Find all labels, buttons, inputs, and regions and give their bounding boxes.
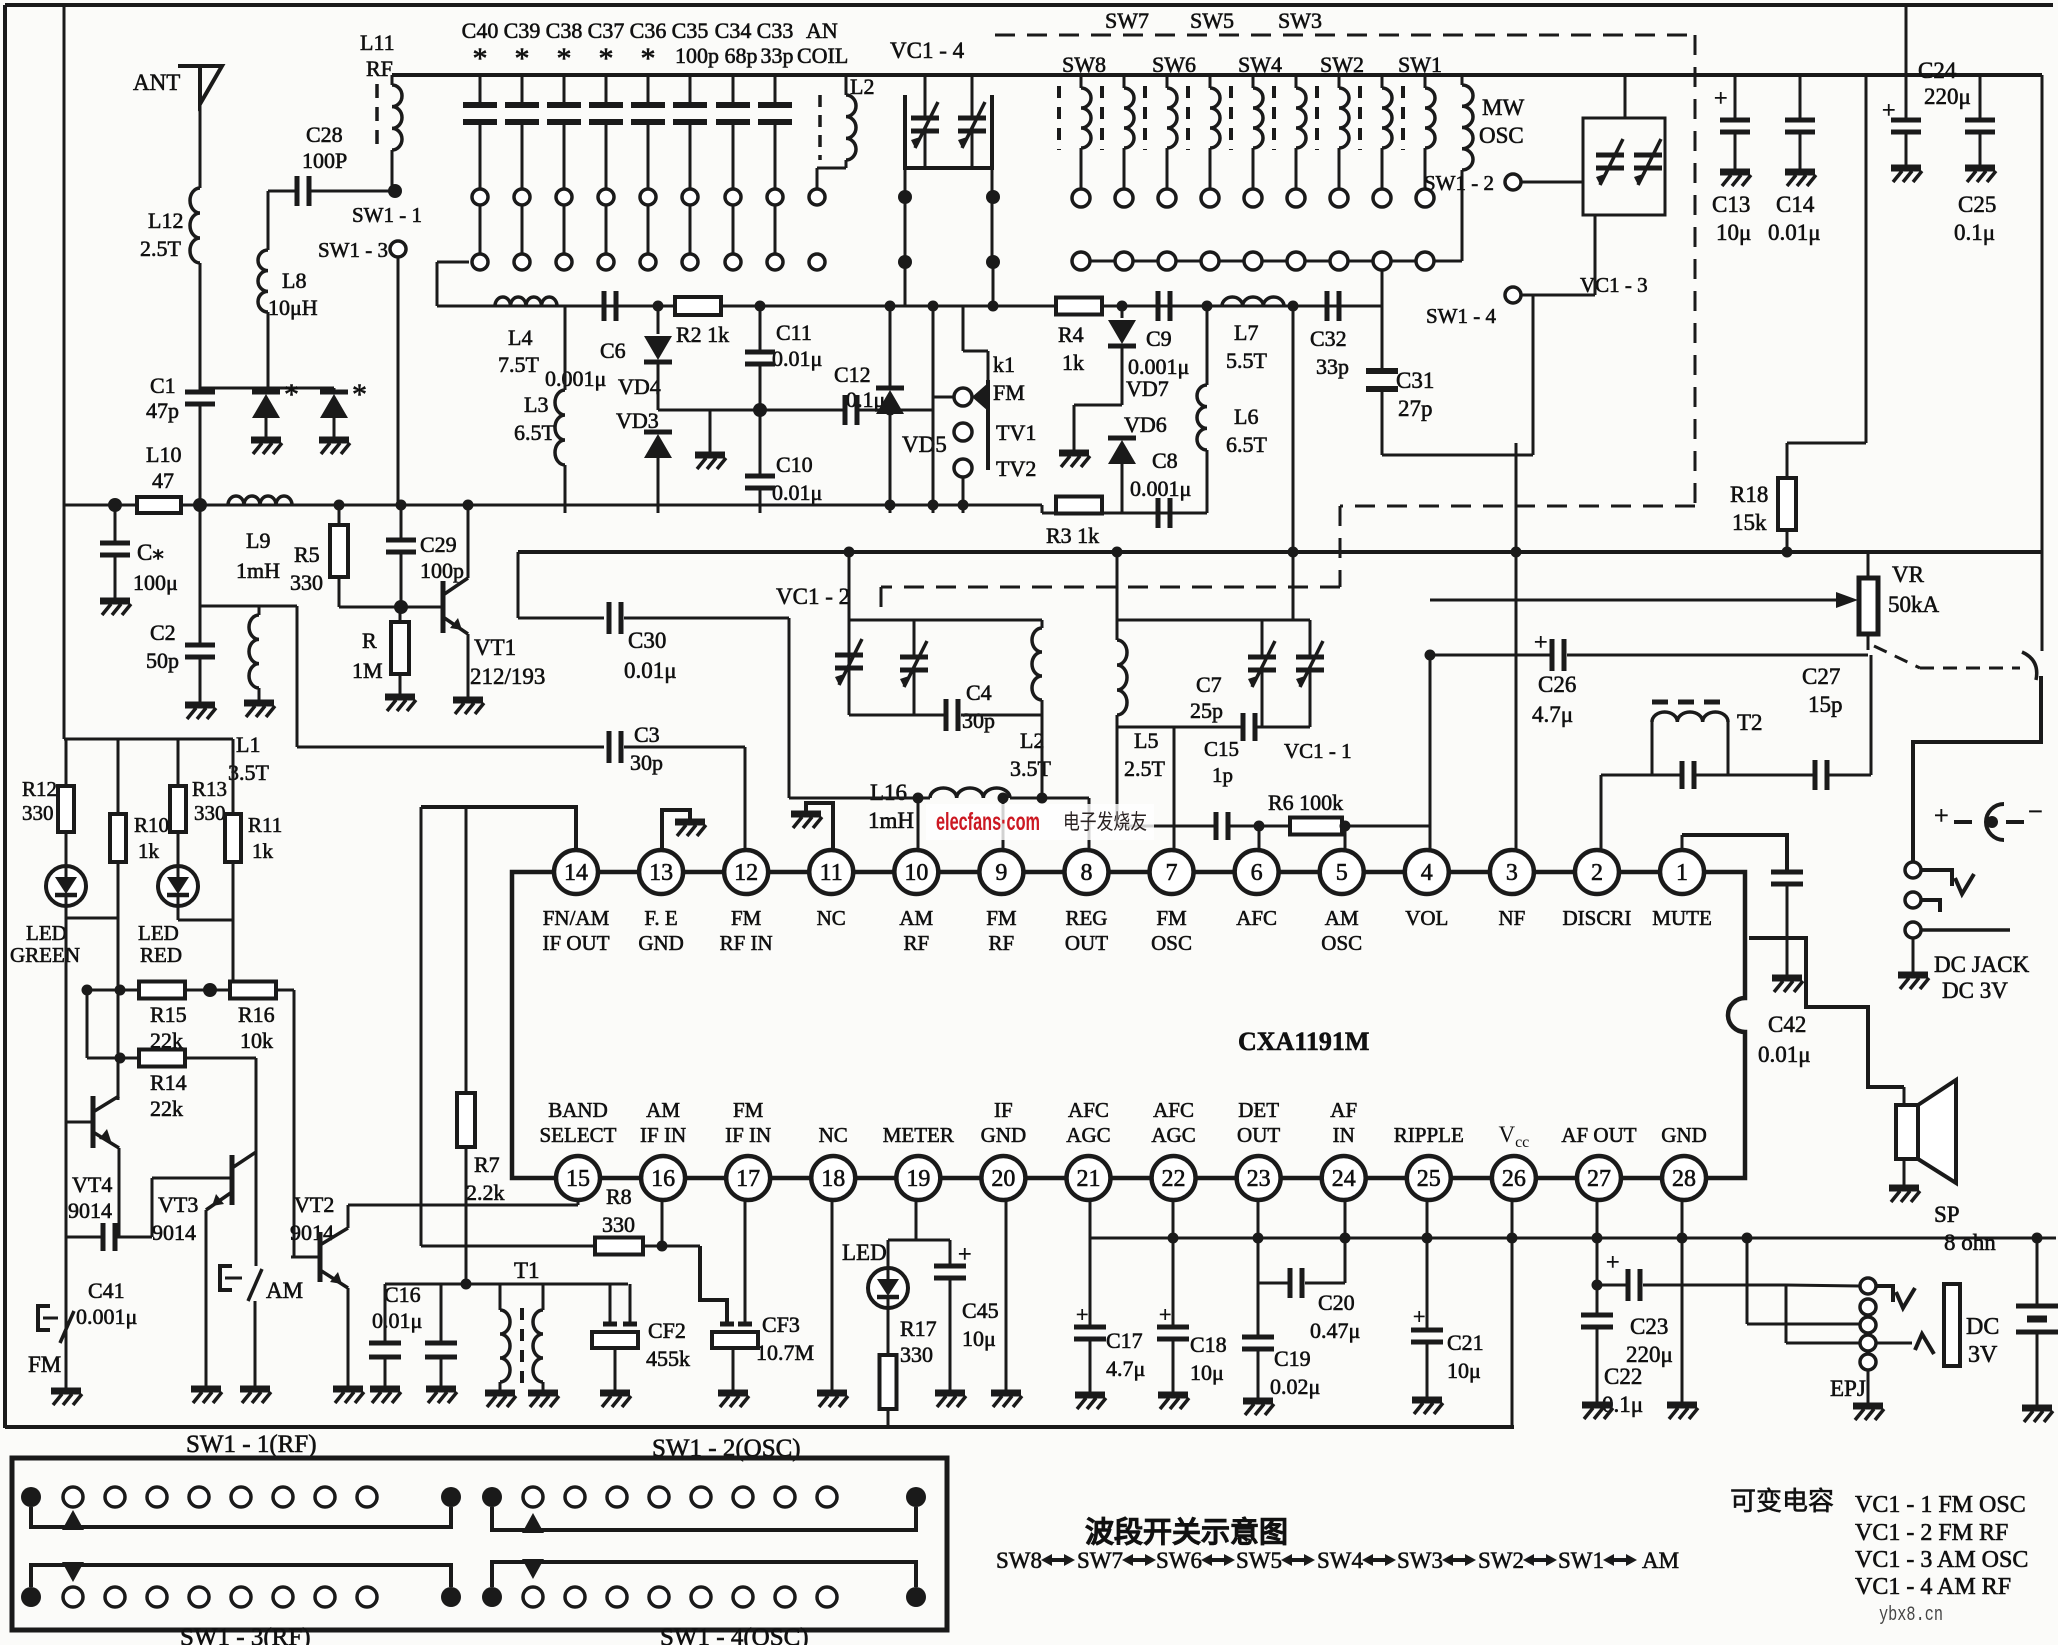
wire x466 down to R7 bbox=[465, 807, 468, 1093]
svg-text:15: 15 bbox=[566, 1166, 590, 1192]
wire chain to MW coil bbox=[1434, 260, 1462, 263]
pin 22 bbox=[1152, 1156, 1196, 1200]
svg-text:R11: R11 bbox=[248, 813, 282, 837]
svg-text:AM: AM bbox=[646, 1098, 680, 1122]
svg-text:SW3: SW3 bbox=[1278, 8, 1322, 33]
capacitor C* 100u bbox=[108, 498, 122, 512]
ground mid bbox=[709, 410, 712, 452]
pin 17 bbox=[726, 1156, 770, 1200]
svg-text:*: * bbox=[473, 42, 488, 75]
svg-text:SW1 - 4: SW1 - 4 bbox=[1426, 304, 1496, 328]
wire pin16 down bbox=[661, 1201, 664, 1246]
svg-text:16: 16 bbox=[651, 1166, 675, 1192]
svg-text:100p: 100p bbox=[675, 43, 719, 68]
svg-text:R13: R13 bbox=[192, 777, 227, 801]
svg-text:AM: AM bbox=[899, 906, 933, 930]
pin 23 bbox=[1237, 1156, 1281, 1200]
svg-text:2.5T: 2.5T bbox=[1124, 756, 1166, 781]
wire x118 down bbox=[117, 918, 120, 1100]
wire C28 left bbox=[267, 191, 270, 250]
svg-text:13: 13 bbox=[649, 860, 673, 886]
svg-text:SW1: SW1 bbox=[1558, 1548, 1604, 1573]
svg-text:17: 17 bbox=[736, 1166, 760, 1192]
wire line y307 bbox=[437, 305, 993, 308]
wire C1 to bus bbox=[199, 404, 202, 505]
svg-text:0.01μ: 0.01μ bbox=[372, 1308, 422, 1333]
svg-text:6.5T: 6.5T bbox=[514, 420, 556, 445]
svg-text:AFC: AFC bbox=[1068, 1098, 1109, 1122]
pin 3 bbox=[1490, 850, 1534, 894]
IC pin row top line bbox=[576, 870, 1682, 875]
row2 link group2 bbox=[492, 1562, 916, 1587]
svg-text:C1: C1 bbox=[150, 373, 176, 398]
svg-text:7: 7 bbox=[1166, 860, 1178, 886]
capacitor C19 bbox=[1257, 1201, 1260, 1335]
svg-text:2: 2 bbox=[1591, 860, 1603, 886]
wire pin9 up bbox=[1002, 798, 1005, 849]
wire R18 top bbox=[1787, 442, 1866, 445]
pin 2 bbox=[1575, 850, 1619, 894]
svg-text:NC: NC bbox=[819, 1123, 848, 1147]
svg-text:VC1 - 4 AM RF: VC1 - 4 AM RF bbox=[1855, 1574, 2011, 1600]
svg-text:C18: C18 bbox=[1190, 1332, 1227, 1357]
svg-text:OSC: OSC bbox=[1479, 123, 1524, 148]
wire TV2 down bbox=[962, 477, 965, 513]
svg-text:0.02μ: 0.02μ bbox=[1270, 1374, 1320, 1399]
svg-text:VT1: VT1 bbox=[474, 635, 516, 660]
wire pin6 up bbox=[1258, 826, 1261, 849]
svg-text:L11: L11 bbox=[360, 30, 395, 55]
svg-text:CXA1191M: CXA1191M bbox=[1238, 1027, 1369, 1056]
svg-text:SW1 - 4(OSC): SW1 - 4(OSC) bbox=[660, 1624, 809, 1645]
svg-text:1k: 1k bbox=[138, 839, 160, 863]
svg-text:3: 3 bbox=[1506, 860, 1518, 886]
svg-text:电子发烧友: 电子发烧友 bbox=[1063, 810, 1147, 834]
pin 24 bbox=[1322, 1156, 1366, 1200]
svg-text:SW1 - 3(RF): SW1 - 3(RF) bbox=[180, 1624, 311, 1645]
svg-text:23: 23 bbox=[1247, 1166, 1271, 1192]
IC CXA1191M left edge bbox=[512, 872, 578, 1178]
svg-text:9014: 9014 bbox=[152, 1220, 196, 1245]
switch contacts row1 left bank bbox=[472, 189, 488, 205]
wire diode row bbox=[200, 387, 334, 390]
svg-text:5: 5 bbox=[1336, 860, 1348, 886]
svg-text:C2: C2 bbox=[150, 620, 176, 645]
wire down to C2 row bbox=[199, 505, 202, 606]
svg-text:R7: R7 bbox=[474, 1152, 500, 1177]
svg-text:330: 330 bbox=[602, 1212, 635, 1237]
contact row1 col4 bbox=[1201, 189, 1219, 207]
ground C24 bbox=[1891, 165, 1921, 172]
wire antenna down bbox=[199, 104, 202, 188]
wire x233 down bbox=[232, 920, 235, 990]
svg-text:T2: T2 bbox=[1737, 710, 1763, 735]
svg-text:OUT: OUT bbox=[1065, 931, 1108, 955]
row1 contacts group1 bbox=[21, 1487, 41, 1507]
svg-text:+: + bbox=[1159, 1302, 1171, 1327]
svg-text:C22: C22 bbox=[1604, 1364, 1642, 1389]
wire C30 hook bbox=[517, 552, 520, 618]
wire VT2 emitter bbox=[347, 1288, 350, 1386]
wire right bus down bbox=[2041, 75, 2044, 651]
svg-text:C32: C32 bbox=[1310, 326, 1347, 351]
svg-text:C38: C38 bbox=[546, 18, 583, 43]
ground R1M bbox=[385, 694, 415, 701]
band coil col3 bbox=[1143, 86, 1147, 150]
ground VD6 bbox=[1059, 450, 1089, 457]
contact row1 col7 bbox=[1330, 189, 1348, 207]
svg-text:50kA: 50kA bbox=[1888, 592, 1940, 617]
pin11 ground loop bbox=[806, 803, 833, 849]
contact row1 col6 bbox=[1287, 189, 1305, 207]
svg-text:24: 24 bbox=[1332, 1166, 1356, 1192]
svg-text:elecfans·com: elecfans·com bbox=[936, 808, 1040, 836]
svg-text:27: 27 bbox=[1587, 1166, 1611, 1192]
svg-text:18: 18 bbox=[821, 1166, 845, 1192]
svg-text:C21: C21 bbox=[1447, 1330, 1484, 1355]
svg-text:50p: 50p bbox=[146, 648, 179, 673]
wire T2 left to pin2 bbox=[1601, 774, 1652, 777]
svg-text:BAND: BAND bbox=[548, 1098, 608, 1122]
switch contact links left bank bbox=[479, 205, 482, 254]
svg-text:IF IN: IF IN bbox=[640, 1123, 686, 1147]
svg-text:*: * bbox=[352, 378, 367, 411]
pin 14 bbox=[554, 850, 598, 894]
svg-text:R8: R8 bbox=[606, 1184, 632, 1209]
svg-text:9014: 9014 bbox=[68, 1198, 112, 1223]
varactor diode VD-a bbox=[252, 390, 280, 395]
svg-text:330: 330 bbox=[194, 801, 226, 825]
svg-text:L10: L10 bbox=[146, 442, 181, 467]
wire EPJ ground bbox=[1867, 1370, 1870, 1403]
pin 26 bbox=[1492, 1156, 1536, 1200]
wire C30 to L16 bbox=[788, 618, 791, 798]
EPJ plug bbox=[1944, 1284, 1960, 1366]
svg-text:RED: RED bbox=[140, 943, 182, 967]
svg-text:C34: C34 bbox=[715, 18, 752, 43]
svg-text:R18: R18 bbox=[1730, 482, 1768, 507]
earphone jack EPJ bbox=[1860, 1278, 1876, 1294]
svg-text:GREEN: GREEN bbox=[10, 943, 80, 967]
wire R8 corner to CF3 bbox=[700, 1246, 727, 1322]
pin 15 bbox=[556, 1156, 600, 1200]
wire pin27 down bbox=[1596, 1201, 1599, 1285]
svg-text:OSC: OSC bbox=[1321, 931, 1362, 955]
svg-text:0.001μ: 0.001μ bbox=[76, 1304, 137, 1329]
svg-text:VD6: VD6 bbox=[1124, 412, 1167, 437]
svg-text:RF: RF bbox=[903, 931, 929, 955]
svg-text:可变电容: 可变电容 bbox=[1730, 1487, 1834, 1516]
svg-text:6: 6 bbox=[1251, 860, 1263, 886]
svg-text:FM: FM bbox=[731, 906, 762, 930]
svg-text:0.01μ: 0.01μ bbox=[1758, 1042, 1811, 1067]
svg-text:RIPPLE: RIPPLE bbox=[1394, 1123, 1464, 1147]
svg-text:L8: L8 bbox=[282, 268, 306, 293]
svg-text:10k: 10k bbox=[240, 1028, 273, 1053]
svg-text:MW: MW bbox=[1482, 95, 1524, 120]
svg-text:FM: FM bbox=[1156, 906, 1187, 930]
svg-text:METER: METER bbox=[883, 1123, 954, 1147]
svg-text:F. E: F. E bbox=[644, 906, 677, 930]
svg-text:T1: T1 bbox=[514, 1258, 540, 1283]
switch contacts row2 left bank bbox=[472, 254, 488, 270]
svg-text:IN: IN bbox=[1333, 1123, 1355, 1147]
svg-text:VT2: VT2 bbox=[294, 1192, 334, 1217]
svg-text:C4: C4 bbox=[966, 680, 992, 705]
svg-text:VC1 - 4: VC1 - 4 bbox=[890, 38, 965, 63]
varactor diode VD-b bbox=[320, 390, 348, 395]
svg-text:L12: L12 bbox=[148, 208, 183, 233]
svg-text:FM: FM bbox=[993, 380, 1025, 405]
border frame bbox=[5, 3, 2053, 7]
ground C13 bbox=[1720, 169, 1750, 176]
svg-text:C17: C17 bbox=[1106, 1328, 1143, 1353]
pin 4 bbox=[1405, 850, 1449, 894]
svg-text:+: + bbox=[1714, 86, 1728, 112]
variable capacitor VC1-1 b bbox=[1309, 620, 1312, 655]
svg-text:VC1 - 3 AM OSC: VC1 - 3 AM OSC bbox=[1855, 1547, 2028, 1573]
svg-text:R2 1k: R2 1k bbox=[676, 322, 729, 347]
wire SW1-3 down bbox=[397, 257, 400, 505]
ground C14 bbox=[1785, 169, 1815, 176]
svg-text:DC: DC bbox=[1966, 1314, 1999, 1340]
pin 8 bbox=[1064, 850, 1108, 894]
svg-text:R4: R4 bbox=[1058, 322, 1084, 347]
svg-text:+: + bbox=[1606, 1250, 1620, 1276]
svg-text:C42: C42 bbox=[1768, 1012, 1806, 1037]
ground L1 bbox=[244, 700, 274, 707]
svg-text:25: 25 bbox=[1417, 1166, 1441, 1192]
svg-text:ybx8.cn: ybx8.cn bbox=[1879, 1604, 1943, 1627]
contact row1 col8 bbox=[1373, 189, 1391, 207]
row1 link group2 bbox=[492, 1507, 916, 1530]
capacitor C16 b bbox=[440, 1284, 443, 1341]
svg-text:SW1 - 1(RF): SW1 - 1(RF) bbox=[186, 1431, 317, 1458]
wire pin7 up bbox=[1173, 727, 1176, 849]
wire T1 line bbox=[466, 1283, 628, 1286]
svg-text:DISCRI: DISCRI bbox=[1563, 906, 1632, 930]
svg-text:28: 28 bbox=[1672, 1166, 1696, 1192]
svg-text:1M: 1M bbox=[352, 658, 383, 683]
wire x294 down bbox=[293, 990, 296, 1257]
svg-text:AM: AM bbox=[266, 1278, 303, 1303]
band coil col1 bbox=[1057, 86, 1061, 150]
svg-text:OUT: OUT bbox=[1237, 1123, 1280, 1147]
svg-text:1mH: 1mH bbox=[868, 808, 914, 833]
svg-text:R17: R17 bbox=[900, 1316, 937, 1341]
svg-text:RF: RF bbox=[366, 56, 393, 81]
svg-text:AFC: AFC bbox=[1153, 1098, 1194, 1122]
wire pin4 vol up bbox=[1429, 655, 1432, 849]
svg-text:3V: 3V bbox=[1968, 1342, 1998, 1368]
svg-text:0.47μ: 0.47μ bbox=[1310, 1318, 1360, 1343]
wire L4 feed bbox=[437, 261, 469, 264]
svg-text:19: 19 bbox=[906, 1166, 930, 1192]
svg-text:0.01μ: 0.01μ bbox=[624, 658, 677, 683]
svg-text:4: 4 bbox=[1421, 860, 1433, 886]
bus y552 bbox=[518, 550, 2042, 554]
svg-text:1: 1 bbox=[1676, 860, 1688, 886]
svg-text:AFC: AFC bbox=[1236, 906, 1277, 930]
svg-text:L4: L4 bbox=[508, 325, 532, 350]
svg-text:SW1: SW1 bbox=[1398, 52, 1442, 77]
svg-text:10μ: 10μ bbox=[1716, 220, 1751, 245]
svg-text:L9: L9 bbox=[246, 528, 270, 553]
svg-text:SW7: SW7 bbox=[1077, 1548, 1123, 1573]
svg-text:LED: LED bbox=[26, 921, 67, 945]
band coil col2 bbox=[1100, 86, 1104, 150]
wire L12 to C1 bbox=[199, 263, 202, 390]
svg-text:AF OUT: AF OUT bbox=[1561, 1123, 1636, 1147]
tank FM OSC box bbox=[1116, 552, 1119, 620]
svg-text:C36: C36 bbox=[630, 18, 667, 43]
svg-text:27p: 27p bbox=[1398, 396, 1433, 421]
svg-text:C13: C13 bbox=[1712, 192, 1750, 217]
svg-text:220μ: 220μ bbox=[1924, 84, 1971, 109]
wire led-r node bbox=[178, 919, 233, 922]
svg-text:330: 330 bbox=[290, 570, 323, 595]
svg-text:2.2k: 2.2k bbox=[466, 1180, 505, 1205]
svg-text:DC JACK: DC JACK bbox=[1934, 952, 2030, 977]
wire pin24 down bbox=[1344, 1201, 1347, 1238]
IC right edge with notch bbox=[1682, 872, 1745, 1178]
svg-text:FM: FM bbox=[986, 906, 1017, 930]
svg-text:30p: 30p bbox=[962, 708, 995, 733]
LED green bbox=[46, 866, 86, 906]
svg-text:波段开关示意图: 波段开关示意图 bbox=[1085, 1515, 1288, 1549]
svg-text:IF: IF bbox=[994, 1098, 1013, 1122]
DC jack contacts bbox=[1905, 862, 1921, 878]
svg-text:10μH: 10μH bbox=[268, 295, 318, 320]
svg-text:VC1 - 2: VC1 - 2 bbox=[776, 584, 850, 609]
svg-text:SW7: SW7 bbox=[1105, 8, 1149, 33]
wire A down bbox=[65, 918, 68, 1388]
contact row1 col9 bbox=[1416, 189, 1434, 207]
IC pin row bottom line bbox=[578, 1176, 1682, 1181]
svg-text:−: − bbox=[2028, 797, 2043, 826]
svg-text:IF IN: IF IN bbox=[725, 1123, 771, 1147]
svg-text:C19: C19 bbox=[1274, 1346, 1311, 1371]
svg-text:VD3: VD3 bbox=[616, 408, 659, 433]
pin 19 bbox=[896, 1156, 940, 1200]
pin 12 bbox=[724, 850, 768, 894]
svg-text:0.1μ: 0.1μ bbox=[1954, 220, 1995, 245]
svg-text:C8: C8 bbox=[1152, 448, 1178, 473]
svg-text:C3: C3 bbox=[634, 722, 660, 747]
svg-text:0.01μ: 0.01μ bbox=[772, 346, 822, 371]
wire x152 vt3 base bbox=[151, 1178, 154, 1237]
svg-text:R3 1k: R3 1k bbox=[1046, 523, 1099, 548]
wire pin18 down bbox=[831, 1201, 834, 1390]
svg-text:*: * bbox=[599, 42, 614, 75]
node SW1-1 bbox=[388, 184, 402, 198]
junction dots bbox=[334, 500, 345, 511]
ground C25 bbox=[1965, 165, 1995, 172]
svg-text:DET: DET bbox=[1238, 1098, 1279, 1122]
svg-text:C33: C33 bbox=[757, 18, 794, 43]
svg-text:IF OUT: IF OUT bbox=[542, 931, 609, 955]
pin 21 bbox=[1066, 1156, 1110, 1200]
svg-text:C12: C12 bbox=[834, 362, 871, 387]
svg-text:C40: C40 bbox=[462, 18, 499, 43]
svg-text:OSC: OSC bbox=[1151, 931, 1192, 955]
contact row1 col5 bbox=[1244, 189, 1262, 207]
svg-text:SW1 - 1: SW1 - 1 bbox=[352, 203, 422, 227]
svg-text:LED: LED bbox=[842, 1240, 887, 1265]
svg-text:NC: NC bbox=[817, 906, 846, 930]
svg-text:C25: C25 bbox=[1958, 192, 1996, 217]
svg-text:*: * bbox=[557, 42, 572, 75]
svg-text:SW8: SW8 bbox=[996, 1548, 1042, 1573]
contact SW1-2 bbox=[1505, 174, 1521, 190]
svg-text:100p: 100p bbox=[420, 558, 464, 583]
variable capacitor VC1-1 a bbox=[1261, 620, 1264, 655]
svg-text:C⁎: C⁎ bbox=[137, 540, 164, 565]
wire left inner bus bbox=[63, 5, 66, 739]
svg-text:22k: 22k bbox=[150, 1096, 183, 1121]
svg-text:*: * bbox=[284, 378, 299, 411]
svg-text:C39: C39 bbox=[504, 18, 541, 43]
svg-text:RF IN: RF IN bbox=[720, 931, 773, 955]
svg-text:GND: GND bbox=[638, 931, 684, 955]
pin 10 bbox=[894, 850, 938, 894]
svg-text:*: * bbox=[641, 42, 656, 75]
svg-text:L1: L1 bbox=[236, 732, 260, 757]
svg-text:10: 10 bbox=[904, 860, 928, 886]
svg-text:SW2: SW2 bbox=[1320, 52, 1364, 77]
svg-text:+: + bbox=[1076, 1302, 1088, 1327]
svg-text:VC1 - 3: VC1 - 3 bbox=[1580, 273, 1648, 297]
svg-text:C35: C35 bbox=[672, 18, 709, 43]
svg-text:C45: C45 bbox=[962, 1298, 999, 1323]
svg-text:0.01μ: 0.01μ bbox=[1768, 220, 1821, 245]
svg-text:TV1: TV1 bbox=[996, 420, 1036, 445]
band coil col4 bbox=[1186, 86, 1190, 150]
svg-text:C24: C24 bbox=[1918, 58, 1957, 83]
row2 contacts group1 bbox=[21, 1587, 41, 1607]
svg-text:SW1 - 3: SW1 - 3 bbox=[318, 238, 388, 262]
svg-text:SW5: SW5 bbox=[1236, 1548, 1282, 1573]
svg-text:C20: C20 bbox=[1318, 1290, 1355, 1315]
svg-text:SW6: SW6 bbox=[1152, 52, 1196, 77]
wire VC1-3 loop bbox=[1532, 295, 1535, 455]
wire T1 tops bbox=[499, 1284, 502, 1300]
svg-text:47p: 47p bbox=[146, 398, 179, 423]
svg-text:VD7: VD7 bbox=[1126, 376, 1169, 401]
svg-text:10.7M: 10.7M bbox=[756, 1340, 814, 1365]
svg-text:330: 330 bbox=[900, 1342, 933, 1367]
contact SW1-4 bbox=[1505, 287, 1521, 303]
svg-text:R10: R10 bbox=[134, 813, 169, 837]
svg-text:CF3: CF3 bbox=[762, 1312, 800, 1337]
LED red bbox=[158, 866, 198, 906]
wire y739 rail bbox=[64, 738, 233, 741]
svg-text:6.5T: 6.5T bbox=[1226, 432, 1268, 457]
svg-text:NF: NF bbox=[1498, 906, 1525, 930]
tank box VC1-2/L2 bbox=[848, 552, 851, 620]
svg-text:VOL: VOL bbox=[1405, 906, 1448, 930]
pin13 ground loop bbox=[662, 810, 690, 849]
watermark elecfans bbox=[926, 804, 1154, 840]
band coil col8 bbox=[1358, 86, 1362, 150]
svg-text:C30: C30 bbox=[628, 628, 666, 653]
bus top y75 bbox=[392, 73, 2042, 77]
svg-text:0.01μ: 0.01μ bbox=[772, 480, 822, 505]
ground C* bbox=[100, 598, 130, 605]
svg-text:R15: R15 bbox=[150, 1002, 187, 1027]
wire VT3 emitter ground bbox=[205, 1210, 208, 1386]
pin 1 bbox=[1660, 850, 1704, 894]
